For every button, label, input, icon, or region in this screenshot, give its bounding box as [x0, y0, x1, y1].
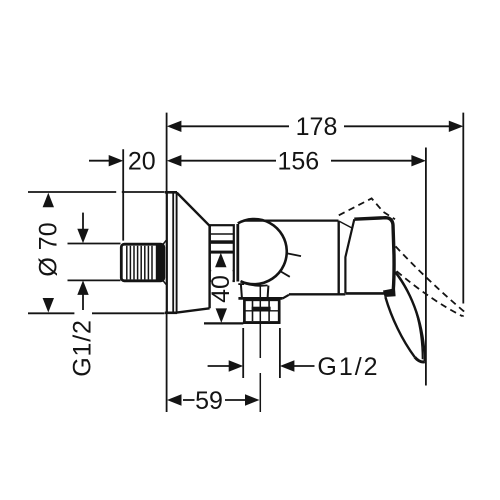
svg-text:178: 178 [296, 113, 338, 141]
dashed swing arc upper [396, 246, 465, 316]
dimension 59 [167, 387, 260, 415]
escutcheon cone [177, 193, 210, 313]
handle cap [345, 218, 394, 294]
dimension G1/2 left [68, 213, 121, 377]
svg-text:40: 40 [207, 275, 235, 303]
svg-text:Ø 70: Ø 70 [35, 222, 63, 276]
outlet axis line [259, 284, 261, 412]
body right end [338, 221, 340, 294]
lever corner blob [383, 288, 396, 297]
dimension 178 [167, 113, 463, 141]
svg-text:G1/2: G1/2 [69, 319, 97, 376]
dashed swing arc lower [397, 271, 463, 316]
extension line 178 right [462, 113, 464, 304]
dimension 40 [204, 253, 243, 324]
outlet flange and body bottom [238, 294, 345, 298]
dashed raised handle outline [339, 198, 395, 219]
extension line wall face [166, 113, 168, 412]
extension line 20 left [122, 149, 124, 240]
wall plate [165, 192, 177, 312]
dimension 20 [89, 148, 156, 176]
valve body [238, 219, 339, 284]
chamfer line [340, 222, 353, 229]
svg-text:59: 59 [195, 387, 223, 415]
union connector [210, 225, 234, 281]
lever blade [385, 272, 424, 362]
dimension dia 70 [28, 192, 165, 313]
dimension 156 [167, 148, 426, 176]
svg-text:156: 156 [277, 148, 319, 176]
extension line 156 right [425, 148, 427, 386]
svg-text:G1/2: G1/2 [317, 353, 379, 381]
outlet thread block [243, 300, 280, 324]
cartridge slant edge [345, 219, 354, 293]
outlet neck [238, 283, 268, 298]
threaded nipple [121, 240, 166, 284]
svg-text:20: 20 [128, 148, 156, 176]
dimension G1/2 bottom [208, 328, 380, 381]
